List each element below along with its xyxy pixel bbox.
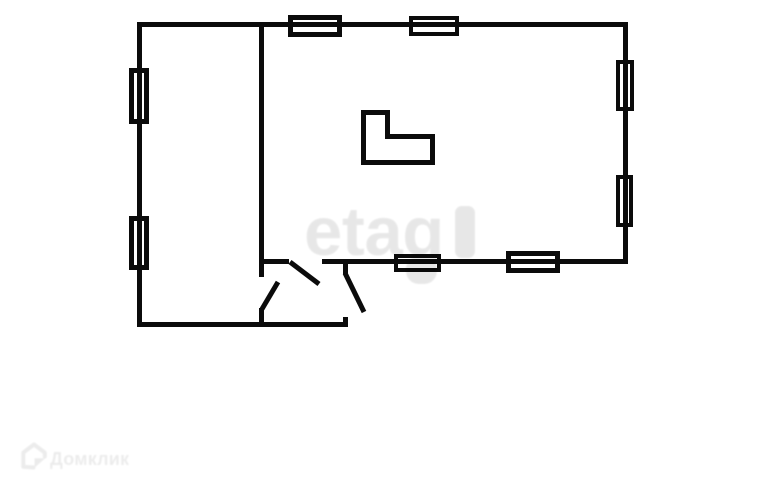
wall left exterior (137, 22, 142, 327)
wall bottom of left room (137, 322, 348, 327)
house icon corner triangle (35, 458, 46, 468)
wall middle partition lower stub (259, 308, 264, 327)
wall jamb stub up at bottom-wall right end (343, 317, 348, 327)
house icon (23, 445, 45, 468)
watermark etagi (304, 193, 475, 284)
door leaf 1 hall to room diagonal (290, 262, 319, 284)
window WD right wall lower (618, 177, 631, 225)
wall entrance door jamb below hall wall (343, 264, 348, 274)
door leaf 2 left room diagonal (262, 282, 278, 309)
window WE hall bottom wall left (396, 256, 439, 270)
wall right exterior (623, 22, 628, 264)
window W1 left wall upper (132, 70, 147, 122)
wall middle partition upper (259, 22, 264, 277)
window WB top wall right (411, 18, 457, 34)
stairs L-shaped block (364, 113, 433, 163)
wall hall bottom left stub (259, 259, 289, 264)
svg-text:Домклик: Домклик (50, 449, 130, 469)
wall top (room A + room B) (137, 22, 628, 27)
window WA top wall left (290, 18, 340, 35)
window WF hall bottom wall right (508, 254, 558, 271)
window WC right wall upper (618, 62, 632, 109)
window W2 left wall lower (132, 218, 147, 268)
watermark Domklik logo (23, 445, 130, 470)
door leaf 3 entrance diagonal (345, 273, 364, 312)
wall hall bottom (right room) (322, 259, 628, 264)
